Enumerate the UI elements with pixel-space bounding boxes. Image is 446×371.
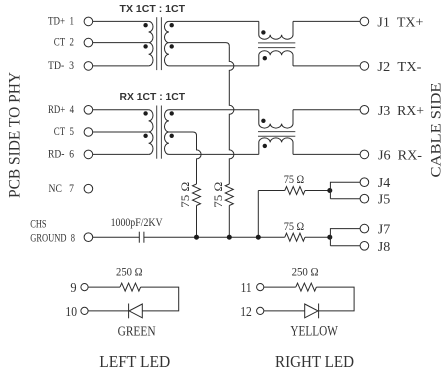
wire pin5 to T2 primary center tap	[93, 131, 149, 133]
choke L2 core	[258, 132, 295, 137]
svg-text:J4: J4	[378, 175, 391, 190]
wire T2 secondary top to choke L2	[169, 109, 259, 111]
choke L2 bottom winding	[259, 138, 293, 155]
junction R1/ground bus	[194, 235, 199, 240]
wire yellow LED to pin12	[264, 310, 305, 312]
wire pin1 to T1 primary	[93, 20, 149, 22]
value label 75 Ω (R4)	[284, 219, 305, 233]
svg-text:RX 1CT : 1CT: RX 1CT : 1CT	[120, 91, 186, 103]
choke L1 bottom winding	[259, 51, 293, 66]
svg-text:GREEN: GREEN	[118, 325, 156, 340]
wire pin6 to T2 primary	[93, 153, 149, 155]
wire R5 around to green LED cathode side	[141, 287, 179, 311]
svg-text:9: 9	[70, 281, 76, 296]
pin 7 NC	[49, 183, 93, 195]
svg-text:J3 RX+: J3 RX+	[378, 103, 424, 118]
vertical wire node V1 from T1 CT with hops	[229, 46, 234, 184]
transformer T2 core	[157, 106, 162, 159]
vertical wire node V2 from T2 CT with hop	[197, 136, 202, 185]
label: RX transformer title RX 1CT : 1CT	[120, 91, 186, 103]
pin 12	[240, 305, 264, 320]
LED D1 GREEN	[129, 304, 143, 319]
label: TX transformer title TX 1CT : 1CT	[120, 3, 186, 15]
wire J4/J5 branch down to ground bus	[257, 191, 259, 238]
wire choke L2 bottom to J6	[293, 153, 360, 155]
svg-text:TD- 3: TD- 3	[48, 60, 74, 72]
svg-text:RD+ 4: RD+ 4	[48, 104, 74, 116]
svg-text:1000pF/2KV: 1000pF/2KV	[111, 217, 164, 229]
value label 250 Ω (R6)	[292, 266, 319, 279]
junction J4/J5 branch on ground bus	[256, 235, 261, 240]
pin 10	[65, 305, 88, 320]
label LEFT LED	[99, 352, 170, 371]
pin J1 TX+	[360, 14, 423, 29]
resistor R5 250 ohm (green LED)	[120, 283, 141, 291]
value label 75 Ω (R3)	[284, 172, 305, 186]
pin J7	[360, 222, 390, 237]
svg-text:J8: J8	[378, 239, 391, 254]
pin J6 RX-	[360, 147, 422, 162]
choke L2 top winding	[259, 110, 293, 128]
label GREEN	[118, 325, 156, 340]
wire ground bus from C1 to resistor R4	[144, 236, 285, 238]
svg-text:NC 7: NC 7	[49, 183, 75, 195]
svg-text:J1 TX+: J1 TX+	[377, 14, 423, 29]
pin 8 CHS GROUND	[30, 219, 92, 245]
svg-text:CT 5: CT 5	[54, 126, 74, 138]
svg-text:CHS: CHS	[30, 219, 46, 231]
resistor R6 250 ohm (yellow LED)	[296, 283, 317, 291]
svg-text:TD+ 1: TD+ 1	[48, 15, 74, 27]
wire pin11 to R6	[264, 286, 296, 288]
label RIGHT LED	[275, 352, 354, 371]
transformer T2 primary winding	[143, 110, 153, 155]
junction R4 to J7/J8 bracket	[327, 235, 332, 240]
wire R1 bottom to ground bus	[196, 206, 198, 238]
LED D2 YELLOW	[305, 304, 319, 319]
label YELLOW	[290, 324, 338, 340]
pin J5	[360, 192, 390, 207]
pin 9	[70, 281, 88, 296]
svg-text:RD- 6: RD- 6	[48, 148, 74, 160]
svg-text:11: 11	[241, 281, 252, 296]
wire pin4 to T2 primary	[93, 109, 149, 111]
value label 1000pF/2KV	[111, 217, 164, 229]
transformer T1 core	[157, 17, 162, 70]
pin J3 RX+	[360, 103, 424, 118]
svg-text:75 Ω: 75 Ω	[180, 182, 192, 208]
pin 1 TD+	[48, 15, 93, 27]
resistor R3 75 ohm (J4/J5 termination)	[258, 187, 330, 195]
svg-text:PCB SIDE TO PHY: PCB SIDE TO PHY	[7, 72, 24, 198]
svg-text:YELLOW: YELLOW	[290, 324, 338, 340]
side label: PCB SIDE TO PHY	[7, 72, 24, 198]
svg-text:J2 TX-: J2 TX-	[377, 59, 422, 74]
svg-text:250 Ω: 250 Ω	[116, 266, 143, 279]
svg-text:J6 RX-: J6 RX-	[378, 147, 423, 162]
svg-text:GROUND 8: GROUND 8	[30, 232, 75, 244]
wire T1 secondary center tap to node V1	[169, 43, 229, 47]
svg-text:75 Ω: 75 Ω	[284, 219, 305, 233]
svg-text:CT 2: CT 2	[54, 37, 74, 49]
wire green LED to pin10	[88, 310, 129, 312]
pin 2 CT	[54, 37, 93, 49]
capacitor C1 1000pF/2KV	[139, 232, 144, 243]
wire T1 secondary bottom to choke L1	[169, 65, 259, 67]
pin 5 CT	[54, 126, 93, 138]
pin J2 TX-	[360, 59, 422, 74]
wire bracket to J4 and J5	[330, 182, 360, 199]
wire pin9 to R5	[88, 286, 120, 288]
pin J8	[360, 239, 390, 254]
side label: CABLE SIDE	[429, 82, 445, 177]
transformer T1 primary winding	[143, 21, 153, 66]
svg-text:12: 12	[240, 305, 252, 320]
svg-text:250 Ω: 250 Ω	[292, 266, 319, 279]
resistor R1 75 ohm (T2 CT termination)	[193, 184, 201, 206]
pin J4	[360, 175, 390, 190]
junction R2/ground bus	[227, 235, 232, 240]
svg-text:LEFT LED: LEFT LED	[99, 352, 170, 371]
transformer T1 secondary winding	[164, 21, 173, 66]
svg-text:J5: J5	[378, 192, 391, 207]
wire pin3 to T1 primary	[93, 65, 149, 67]
value label 75 Ω (R1, rotated)	[180, 182, 192, 208]
choke L1 core	[258, 43, 295, 48]
pin 6 RD-	[48, 148, 93, 160]
svg-text:RIGHT LED: RIGHT LED	[275, 352, 354, 371]
wire R2 bottom to ground bus	[228, 206, 230, 238]
wire pin8 to capacitor C1	[93, 236, 140, 238]
pin 4 RD+	[48, 104, 93, 116]
transformer T2 secondary winding	[164, 110, 173, 155]
resistor R4 75 ohm (J7/J8 termination, on ground bus)	[285, 233, 331, 241]
wire R6 around to yellow LED cathode side	[316, 287, 354, 311]
wire T1 secondary top to choke L1	[169, 20, 259, 22]
choke L1 top winding	[259, 21, 293, 39]
svg-text:TX 1CT : 1CT: TX 1CT : 1CT	[120, 3, 186, 15]
svg-text:J7: J7	[378, 222, 391, 237]
pin 3 TD-	[48, 60, 93, 72]
wire T2 secondary center tap to node V2	[169, 132, 197, 136]
wire choke L1 bottom to J2	[293, 65, 360, 67]
wire pin2 to T1 primary center tap	[93, 42, 149, 44]
svg-text:75 Ω: 75 Ω	[213, 182, 225, 208]
svg-text:10: 10	[65, 305, 77, 320]
pin 11	[241, 281, 264, 296]
wire choke L2 top to J3	[293, 109, 360, 111]
wire bracket to J7 and J8	[330, 229, 360, 246]
value label 250 Ω (R5)	[116, 266, 143, 279]
wire T2 secondary bottom to choke L2	[169, 153, 259, 155]
svg-text:CABLE SIDE: CABLE SIDE	[429, 82, 445, 177]
wire choke L1 top to J1	[293, 20, 360, 22]
junction R3 to J4/J5 bracket	[327, 188, 332, 193]
value label 75 Ω (R2, rotated)	[213, 182, 225, 208]
svg-text:75 Ω: 75 Ω	[284, 172, 305, 186]
resistor R2 75 ohm (T1 CT termination)	[225, 184, 233, 206]
